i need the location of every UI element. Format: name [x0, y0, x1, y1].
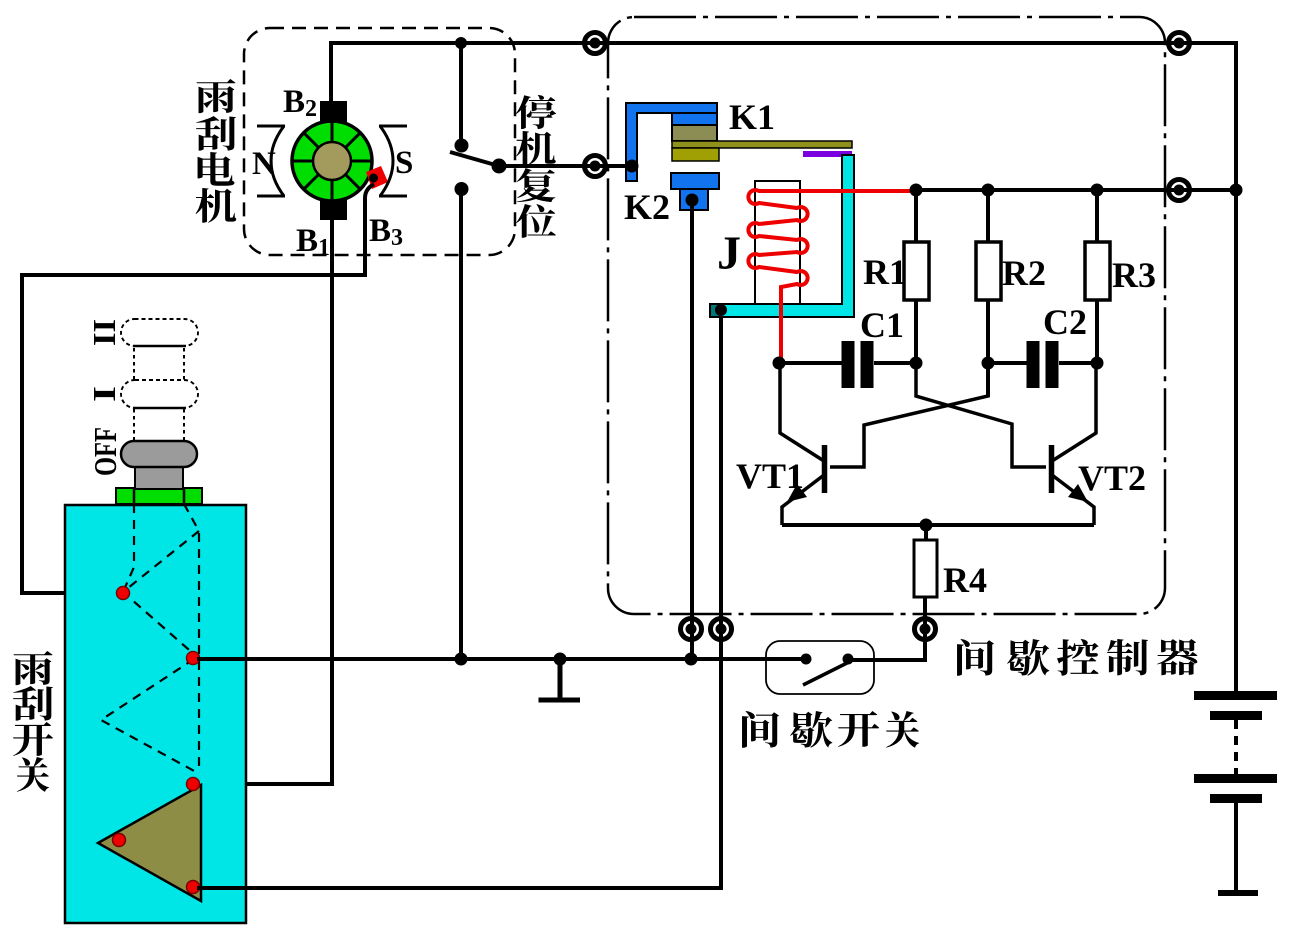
wire: emitter rail: [782, 523, 1094, 527]
junction: K2 branch on common wire: [685, 653, 698, 666]
svg-text:OFF: OFF: [87, 427, 123, 476]
terminal frame bottom: [711, 619, 732, 640]
wire: supply node rail to battery: [917, 188, 1236, 192]
node VT1 collector / coil: [773, 357, 786, 370]
wire: B1 down to wiper switch common: [197, 220, 332, 784]
relay coil core: [755, 181, 800, 304]
wire: B2 up, top supply rail, right side down to battery: [331, 43, 1236, 692]
relay frame heel (dark teal): [711, 305, 721, 316]
transistor VT2 collector: [1052, 363, 1096, 461]
contact dot pole B1: [187, 778, 200, 791]
terminal top-left: [585, 33, 606, 54]
capacitor C2: [1033, 341, 1052, 388]
svg-text:R1: R1: [863, 252, 907, 292]
wiper switch body (cyan): [65, 505, 246, 923]
VT2 emitter arrow: [1068, 484, 1088, 502]
terminal K2 bottom: [681, 619, 702, 640]
wire: stop-reset switch upper branch: [459, 43, 463, 145]
wire: switch common to controller terminal: [498, 164, 630, 168]
dashed travel guides: [134, 348, 184, 441]
wiper switch mount (green): [116, 488, 202, 504]
node battery rail: [1230, 184, 1243, 197]
wire: C2 to R3 node: [1059, 361, 1097, 365]
intermittent switch left contact: [801, 654, 812, 665]
motor rotor spokes: [292, 121, 372, 201]
knob legs through green mount: [134, 489, 184, 504]
wire: R2/C2 node to VT1 base: [830, 363, 988, 467]
wire: C1 to R1 node: [874, 361, 916, 365]
svg-text:J: J: [717, 227, 741, 280]
label 雨刮开关 (wiper switch): [14, 651, 53, 685]
resistor R3: [1085, 242, 1110, 300]
relay contact K2 blue upper: [671, 173, 719, 189]
stop-reset switch upper contact: [455, 139, 469, 153]
stop-reset switch common contact: [492, 159, 507, 174]
node C2-R2: [982, 357, 995, 370]
knob position II (stadium, dashed): [121, 319, 198, 346]
resistor R4: [914, 540, 937, 597]
terminal R4 bottom: [915, 619, 936, 640]
svg-text:R4: R4: [943, 560, 987, 600]
resistor R2 leads: [986, 190, 990, 397]
pole bracket N: [257, 126, 285, 196]
wire: triangle contact II to relay frame: [197, 310, 721, 888]
svg-text:N: N: [252, 146, 276, 182]
contact dot pole II: [187, 881, 200, 894]
node C1-R1: [910, 357, 923, 370]
relay armature arm (olive): [672, 141, 852, 148]
intermittent controller dash-dot enclosure box: [608, 17, 1165, 614]
relay contact olive lower: [672, 148, 719, 161]
junction: reset branch on common wire: [455, 653, 468, 666]
armature insulator (purple): [803, 151, 852, 157]
svg-text:II: II: [86, 319, 122, 346]
svg-text:VT1: VT1: [736, 456, 804, 496]
knob stem (gray): [135, 465, 183, 489]
battery dashed link: [1234, 720, 1238, 774]
junction: ground stub: [554, 653, 567, 666]
svg-text:K1: K1: [729, 97, 775, 137]
battery cell 2 long plate: [1194, 774, 1277, 783]
wire: B3 down, across, down left side to wiper switch pole I: [22, 184, 374, 593]
intermittent switch right contact: [843, 654, 854, 665]
capacitor C1: [848, 341, 867, 388]
battery cell 2 short plate: [1210, 794, 1262, 803]
knob position I (stadium, dashed): [121, 380, 198, 408]
wire: R2 node to C2: [988, 361, 1027, 365]
node R2 top: [982, 184, 995, 197]
svg-text:C1: C1: [860, 305, 904, 345]
label 雨刮电机 (wiper motor): [197, 79, 236, 113]
wire: VT1 collector node to C1: [779, 361, 842, 365]
relay contact stack blue: [672, 113, 717, 125]
battery negative lead: [1234, 803, 1238, 890]
B3 contact dot: [369, 174, 378, 183]
knob base (gray stadium): [121, 441, 197, 467]
motor brush B1 (bottom): [320, 198, 347, 220]
relay coil J (red) and supply wire: [748, 190, 917, 363]
motor hub: [313, 142, 351, 180]
node R3 top: [1091, 184, 1104, 197]
stop-reset switch lower contact: [455, 182, 469, 196]
resistor R2: [976, 242, 1001, 300]
switch linkage dashes: [101, 504, 199, 772]
node on K2: [686, 194, 699, 207]
motor stator ring: [292, 121, 372, 201]
relay contact K2 blue lower: [680, 189, 708, 210]
terminal top-right: [1169, 33, 1190, 54]
wire: switch common to intermittent switch: [197, 657, 807, 661]
svg-text:S: S: [395, 145, 413, 181]
motor brush B2 (top): [320, 101, 347, 126]
label 间歇开关 (intermittent switch): [742, 711, 779, 748]
pole bracket S: [379, 126, 407, 196]
node on K1 support: [626, 160, 639, 173]
transistor VT2 emitter: [1052, 475, 1094, 525]
stop-reset switch blade: [450, 152, 499, 166]
terminal supply right: [1169, 180, 1190, 201]
transistor VT2 base bar: [1049, 445, 1055, 493]
intermittent switch blade: [803, 661, 851, 685]
resistor R3 leads: [1095, 190, 1099, 363]
relay contact olive upper: [672, 125, 717, 141]
battery cell 1 long plate: [1194, 691, 1277, 700]
resistor R1 leads: [914, 190, 918, 363]
wire: terminal to K1 support: [596, 164, 632, 168]
intermittent switch box: [766, 641, 874, 694]
wire: R1/C1 node to VT2 base: [916, 363, 1046, 467]
contact dot on triangle: [113, 834, 126, 847]
svg-text:K2: K2: [624, 187, 670, 227]
svg-text:R3: R3: [1112, 255, 1156, 295]
relay frame (cyan): [710, 155, 854, 317]
wire: stop-reset switch lower branch down: [459, 189, 463, 659]
transistor VT1 collector: [780, 363, 824, 461]
node C2-R3: [1091, 357, 1104, 370]
contact dot pole I: [117, 587, 130, 600]
contact dot pole common: [187, 652, 200, 665]
battery negative end: [1218, 890, 1258, 896]
battery cell 1 short plate: [1210, 711, 1262, 720]
svg-text:I: I: [86, 386, 122, 402]
VT1 emitter arrow: [787, 484, 807, 502]
node on relay frame heel: [715, 304, 727, 316]
ground symbol: [539, 659, 581, 700]
svg-text:R2: R2: [1002, 253, 1046, 293]
transistor VT1 base bar: [822, 445, 828, 493]
wiper motor dashed enclosure box: [244, 28, 515, 255]
motor contact B3 (red): [366, 166, 388, 189]
node R1 top: [910, 184, 923, 197]
relay fixed contact support K1 (blue bracket): [626, 103, 717, 181]
svg-text:VT2: VT2: [1078, 458, 1146, 498]
label 停机复位 (stop reset): [516, 95, 557, 129]
wiper switch contact plate (olive triangle): [98, 785, 201, 901]
node at top of stop-reset switch: [455, 37, 467, 49]
wire: K2 down to common wire: [690, 200, 694, 659]
transistor VT1 emitter: [782, 475, 824, 525]
node emitter rail: [920, 519, 933, 532]
terminal K1 input: [585, 156, 606, 177]
resistor R4 leads: [850, 525, 926, 660]
resistor R1: [904, 242, 929, 300]
label 间歇控制器 (intermittent controller): [957, 639, 994, 676]
svg-text:C2: C2: [1043, 302, 1087, 342]
